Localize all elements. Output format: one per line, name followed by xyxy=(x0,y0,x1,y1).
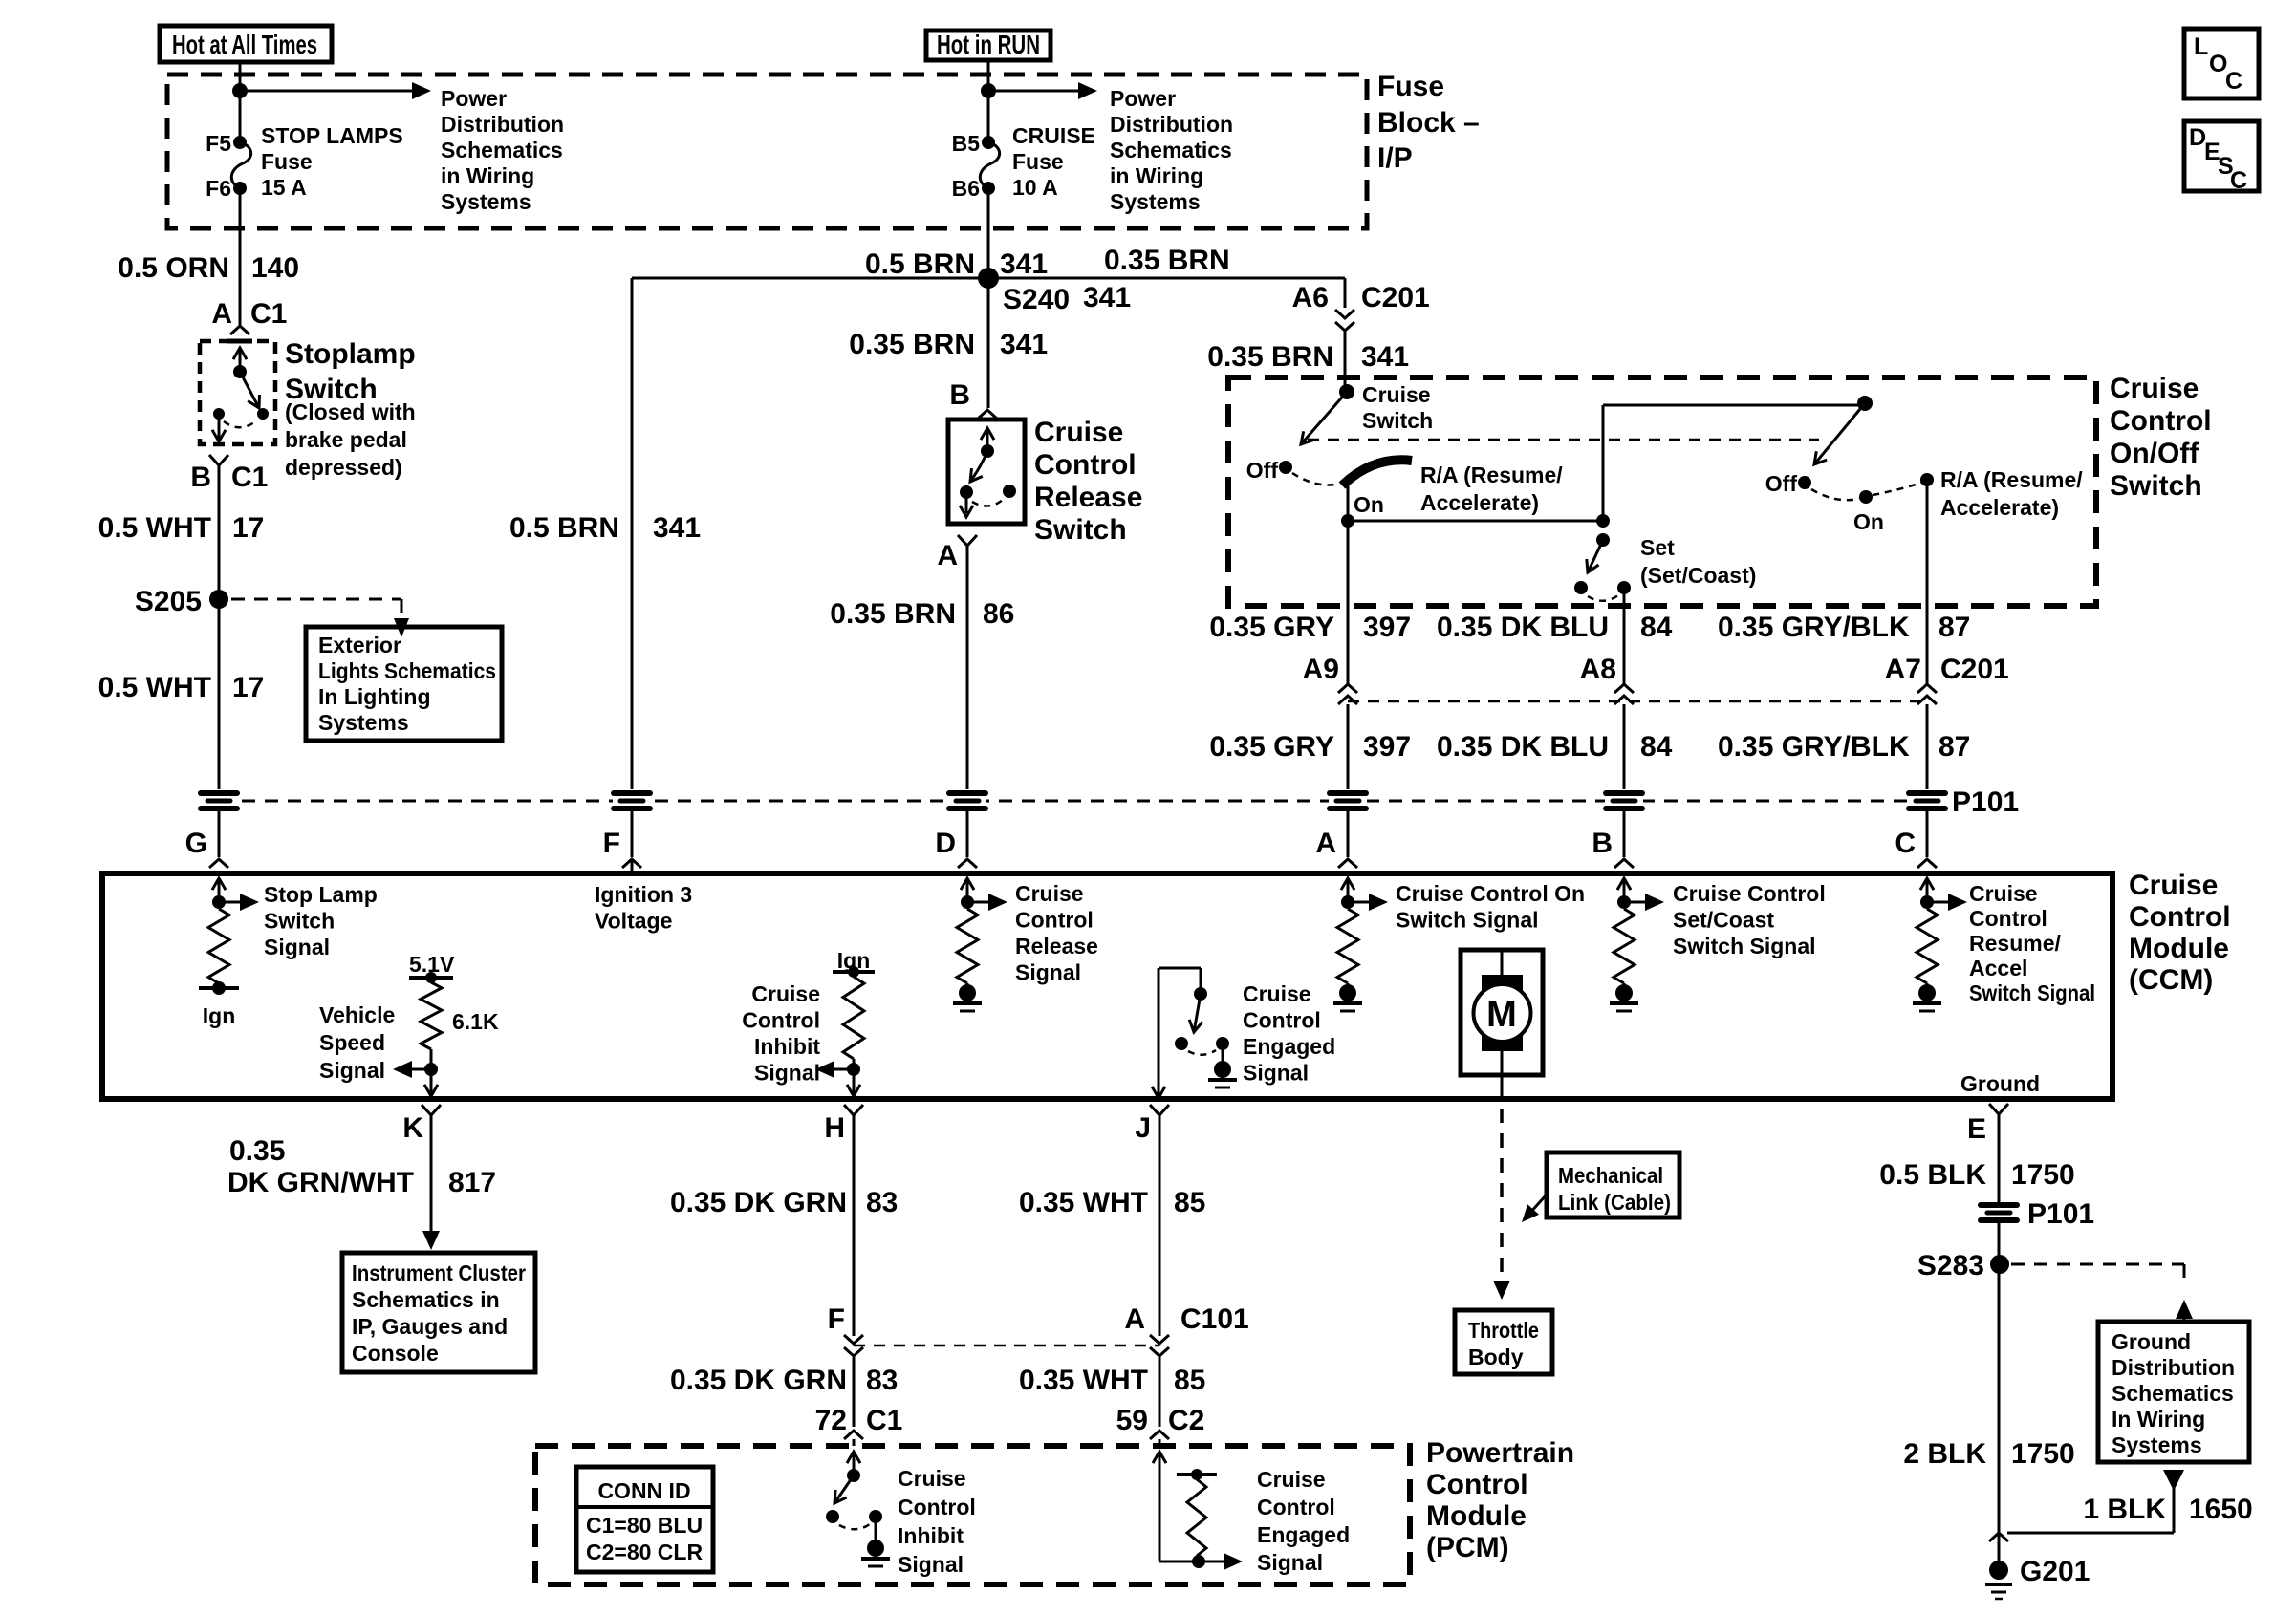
svg-text:CRUISE: CRUISE xyxy=(1012,123,1095,148)
svg-text:C1: C1 xyxy=(866,1405,902,1436)
svg-text:Distribution: Distribution xyxy=(441,112,564,137)
svg-text:DK GRN/WHT: DK GRN/WHT xyxy=(227,1167,414,1198)
svg-text:Cruise: Cruise xyxy=(2129,870,2218,901)
svg-text:Switch Signal: Switch Signal xyxy=(1396,908,1539,933)
svg-text:Stoplamp: Stoplamp xyxy=(285,338,416,370)
svg-text:Control: Control xyxy=(742,1008,820,1033)
svg-text:A7: A7 xyxy=(1885,654,1921,685)
svg-text:F5: F5 xyxy=(206,131,231,156)
svg-text:Cruise: Cruise xyxy=(1034,417,1123,448)
svg-text:C1: C1 xyxy=(250,298,287,330)
svg-text:341: 341 xyxy=(1361,341,1409,373)
svg-text:A: A xyxy=(1315,828,1336,859)
svg-text:A9: A9 xyxy=(1303,654,1339,685)
svg-text:Exterior: Exterior xyxy=(318,633,401,657)
svg-text:R/A (Resume/: R/A (Resume/ xyxy=(1940,467,2083,492)
svg-text:87: 87 xyxy=(1939,731,1970,763)
svg-text:C2=80 CLR: C2=80 CLR xyxy=(586,1540,703,1564)
svg-text:87: 87 xyxy=(1939,612,1970,643)
svg-text:397: 397 xyxy=(1363,612,1411,643)
svg-text:Schematics: Schematics xyxy=(2112,1381,2234,1406)
svg-text:In Lighting: In Lighting xyxy=(318,684,431,709)
svg-text:6.1K: 6.1K xyxy=(452,1009,499,1034)
svg-text:R/A (Resume/: R/A (Resume/ xyxy=(1420,463,1563,487)
svg-text:A6: A6 xyxy=(1292,282,1329,313)
svg-text:Hot at All Times: Hot at All Times xyxy=(172,30,317,59)
svg-text:341: 341 xyxy=(1083,282,1131,313)
svg-text:Off: Off xyxy=(1246,458,1279,483)
svg-text:397: 397 xyxy=(1363,731,1411,763)
svg-text:Accelerate): Accelerate) xyxy=(1420,490,1539,515)
svg-text:Inhibit: Inhibit xyxy=(898,1523,964,1548)
svg-text:0.35: 0.35 xyxy=(229,1135,285,1167)
svg-text:Module: Module xyxy=(2129,933,2229,964)
svg-text:depressed): depressed) xyxy=(285,455,402,480)
svg-text:Control: Control xyxy=(2110,405,2212,437)
svg-text:1 BLK: 1 BLK xyxy=(2083,1494,2166,1525)
svg-text:(CCM): (CCM) xyxy=(2129,964,2213,996)
svg-text:0.5 BRN: 0.5 BRN xyxy=(509,512,619,544)
svg-text:Accelerate): Accelerate) xyxy=(1940,495,2059,520)
svg-text:Systems: Systems xyxy=(2112,1432,2202,1457)
svg-text:Engaged: Engaged xyxy=(1257,1522,1350,1547)
svg-text:Systems: Systems xyxy=(1110,189,1201,214)
svg-text:(Set/Coast): (Set/Coast) xyxy=(1640,563,1756,588)
svg-text:85: 85 xyxy=(1174,1365,1205,1396)
svg-text:Throttle: Throttle xyxy=(1468,1318,1539,1343)
svg-text:0.35 BRN: 0.35 BRN xyxy=(849,329,975,360)
svg-text:Block –: Block – xyxy=(1377,107,1480,139)
svg-text:A: A xyxy=(937,540,958,571)
svg-text:0.35 WHT: 0.35 WHT xyxy=(1019,1365,1148,1396)
svg-text:IP, Gauges and: IP, Gauges and xyxy=(352,1314,508,1339)
svg-text:I/P: I/P xyxy=(1377,142,1413,174)
svg-text:B: B xyxy=(190,462,211,493)
svg-text:Control: Control xyxy=(1257,1495,1335,1519)
svg-text:H: H xyxy=(824,1112,845,1144)
svg-text:F: F xyxy=(603,828,620,859)
svg-text:1750: 1750 xyxy=(2011,1159,2075,1191)
svg-text:84: 84 xyxy=(1640,612,1673,643)
svg-text:Schematics: Schematics xyxy=(1110,138,1232,162)
svg-text:0.35 BRN: 0.35 BRN xyxy=(830,598,956,630)
svg-text:Distribution: Distribution xyxy=(1110,112,1233,137)
svg-text:0.35 DK GRN: 0.35 DK GRN xyxy=(670,1187,847,1218)
svg-text:C2: C2 xyxy=(1168,1405,1204,1436)
svg-text:Cruise: Cruise xyxy=(898,1466,966,1491)
svg-text:83: 83 xyxy=(866,1187,898,1218)
svg-text:brake pedal: brake pedal xyxy=(285,427,407,452)
svg-text:17: 17 xyxy=(232,512,264,544)
svg-text:Fuse: Fuse xyxy=(1012,149,1064,174)
svg-text:Speed: Speed xyxy=(319,1030,385,1055)
svg-text:B6: B6 xyxy=(952,176,980,201)
svg-text:83: 83 xyxy=(866,1365,898,1396)
svg-text:Fuse: Fuse xyxy=(1377,71,1444,102)
svg-text:C201: C201 xyxy=(1361,282,1430,313)
svg-text:A8: A8 xyxy=(1580,654,1616,685)
svg-text:Console: Console xyxy=(352,1341,439,1366)
svg-text:0.35 GRY: 0.35 GRY xyxy=(1209,731,1334,763)
svg-text:72: 72 xyxy=(815,1405,847,1436)
svg-text:Control: Control xyxy=(1243,1008,1321,1033)
svg-text:Voltage: Voltage xyxy=(595,909,672,934)
svg-text:Instrument Cluster: Instrument Cluster xyxy=(352,1260,526,1285)
svg-text:D: D xyxy=(935,828,956,859)
svg-text:Ign: Ign xyxy=(203,1003,236,1028)
svg-text:B: B xyxy=(949,379,970,411)
svg-text:Off: Off xyxy=(1765,471,1798,496)
svg-text:in Wiring: in Wiring xyxy=(441,163,534,188)
svg-text:Set/Coast: Set/Coast xyxy=(1673,908,1774,933)
svg-text:Link (Cable): Link (Cable) xyxy=(1558,1190,1671,1215)
svg-text:B: B xyxy=(1592,828,1613,859)
svg-text:0.5 BRN: 0.5 BRN xyxy=(865,248,975,280)
svg-text:On/Off: On/Off xyxy=(2110,438,2199,469)
svg-text:0.35 DK BLU: 0.35 DK BLU xyxy=(1437,731,1609,763)
svg-text:Resume/: Resume/ xyxy=(1969,931,2061,956)
svg-text:Set: Set xyxy=(1640,535,1675,560)
svg-text:15 A: 15 A xyxy=(261,175,307,200)
svg-text:Schematics in: Schematics in xyxy=(352,1287,500,1312)
svg-text:P101: P101 xyxy=(2027,1198,2094,1230)
svg-text:817: 817 xyxy=(448,1167,496,1198)
svg-text:S283: S283 xyxy=(1917,1250,1984,1281)
svg-text:86: 86 xyxy=(983,598,1014,630)
svg-text:17: 17 xyxy=(232,672,264,703)
svg-text:C: C xyxy=(2230,167,2247,194)
svg-text:Switch Signal: Switch Signal xyxy=(1969,980,2095,1005)
svg-text:Module: Module xyxy=(1426,1500,1527,1532)
svg-text:S240: S240 xyxy=(1003,284,1070,315)
svg-text:C: C xyxy=(1895,828,1916,859)
svg-text:J: J xyxy=(1135,1112,1151,1144)
svg-text:Cruise: Cruise xyxy=(1015,881,1084,906)
svg-text:1750: 1750 xyxy=(2011,1438,2075,1470)
svg-text:Cruise: Cruise xyxy=(751,981,820,1006)
svg-text:Cruise Control On: Cruise Control On xyxy=(1396,881,1585,906)
svg-text:C: C xyxy=(2225,68,2242,95)
svg-text:C1=80 BLU: C1=80 BLU xyxy=(586,1513,703,1538)
svg-text:0.35 WHT: 0.35 WHT xyxy=(1019,1187,1148,1218)
svg-text:Signal: Signal xyxy=(898,1552,964,1577)
svg-text:Control: Control xyxy=(898,1495,976,1519)
svg-text:C101: C101 xyxy=(1180,1303,1249,1335)
svg-text:Cruise: Cruise xyxy=(2110,373,2199,404)
svg-text:(Closed with: (Closed with xyxy=(285,399,416,424)
svg-text:S205: S205 xyxy=(135,586,202,617)
svg-text:Lights Schematics: Lights Schematics xyxy=(318,658,496,683)
svg-text:Signal: Signal xyxy=(1243,1061,1309,1086)
svg-text:85: 85 xyxy=(1174,1187,1205,1218)
svg-text:On: On xyxy=(1354,492,1384,517)
svg-text:Cruise: Cruise xyxy=(1362,382,1431,407)
svg-text:341: 341 xyxy=(653,512,701,544)
svg-text:Cruise: Cruise xyxy=(1243,981,1311,1006)
svg-text:(PCM): (PCM) xyxy=(1426,1532,1509,1563)
svg-text:341: 341 xyxy=(1000,248,1048,280)
svg-text:59: 59 xyxy=(1116,1405,1148,1436)
svg-text:140: 140 xyxy=(251,252,299,284)
svg-text:B5: B5 xyxy=(952,131,981,156)
svg-text:G201: G201 xyxy=(2020,1556,2090,1587)
svg-text:Cruise: Cruise xyxy=(1257,1467,1326,1492)
svg-text:2 BLK: 2 BLK xyxy=(1903,1438,1986,1470)
svg-text:G: G xyxy=(185,828,207,859)
svg-text:0.5 WHT: 0.5 WHT xyxy=(98,672,211,703)
svg-text:A: A xyxy=(211,298,232,330)
svg-text:Inhibit: Inhibit xyxy=(754,1034,820,1059)
svg-text:Signal: Signal xyxy=(1257,1550,1323,1575)
svg-text:Distribution: Distribution xyxy=(2112,1355,2235,1380)
svg-text:Ground: Ground xyxy=(1960,1071,2040,1096)
svg-text:0.35 BRN: 0.35 BRN xyxy=(1207,341,1333,373)
svg-text:Ground: Ground xyxy=(2112,1329,2191,1354)
svg-text:Ignition 3: Ignition 3 xyxy=(595,882,692,907)
svg-text:Release: Release xyxy=(1034,482,1142,513)
svg-text:0.5 BLK: 0.5 BLK xyxy=(1879,1159,1986,1191)
svg-text:Signal: Signal xyxy=(319,1058,385,1083)
svg-text:10 A: 10 A xyxy=(1012,175,1058,200)
svg-text:Control: Control xyxy=(1015,908,1094,933)
svg-text:STOP LAMPS: STOP LAMPS xyxy=(261,123,403,148)
svg-text:Control: Control xyxy=(1969,906,2047,931)
svg-text:1650: 1650 xyxy=(2189,1494,2253,1525)
svg-text:P101: P101 xyxy=(1952,786,2019,818)
svg-text:Signal: Signal xyxy=(1015,960,1081,985)
svg-text:Body: Body xyxy=(1468,1345,1524,1369)
svg-text:in Wiring: in Wiring xyxy=(1110,163,1203,188)
svg-text:F6: F6 xyxy=(206,176,231,201)
svg-text:0.35 GRY/BLK: 0.35 GRY/BLK xyxy=(1718,612,1910,643)
svg-text:Vehicle: Vehicle xyxy=(319,1002,395,1027)
svg-text:Stop Lamp: Stop Lamp xyxy=(264,882,378,907)
svg-text:Hot in RUN: Hot in RUN xyxy=(937,30,1040,59)
svg-text:Power: Power xyxy=(441,86,507,111)
svg-text:E: E xyxy=(1967,1113,1986,1145)
svg-text:Control: Control xyxy=(1034,449,1137,481)
svg-text:Mechanical: Mechanical xyxy=(1558,1163,1663,1188)
svg-text:341: 341 xyxy=(1000,329,1048,360)
svg-text:Signal: Signal xyxy=(264,935,330,959)
svg-text:Cruise Control: Cruise Control xyxy=(1673,881,1826,906)
svg-text:Switch: Switch xyxy=(1034,514,1127,546)
svg-text:K: K xyxy=(402,1112,423,1144)
svg-text:Accel: Accel xyxy=(1969,956,2027,980)
svg-text:Release: Release xyxy=(1015,934,1098,958)
svg-text:0.35 GRY/BLK: 0.35 GRY/BLK xyxy=(1718,731,1910,763)
svg-text:0.5 ORN: 0.5 ORN xyxy=(118,252,229,284)
svg-text:Fuse: Fuse xyxy=(261,149,313,174)
svg-text:Control: Control xyxy=(1426,1469,1528,1500)
svg-text:C201: C201 xyxy=(1940,654,2009,685)
svg-text:Engaged: Engaged xyxy=(1243,1034,1335,1059)
svg-text:0.35 DK BLU: 0.35 DK BLU xyxy=(1437,612,1609,643)
svg-text:0.35 DK GRN: 0.35 DK GRN xyxy=(670,1365,847,1396)
svg-text:0.5 WHT: 0.5 WHT xyxy=(98,512,211,544)
svg-text:Switch: Switch xyxy=(2110,470,2202,502)
svg-text:Switch: Switch xyxy=(264,909,335,934)
svg-text:Cruise: Cruise xyxy=(1969,881,2038,906)
svg-text:Powertrain: Powertrain xyxy=(1426,1437,1574,1469)
svg-text:0.35 GRY: 0.35 GRY xyxy=(1209,612,1334,643)
svg-text:In Wiring: In Wiring xyxy=(2112,1407,2205,1432)
svg-text:Switch Signal: Switch Signal xyxy=(1673,934,1816,958)
svg-text:Signal: Signal xyxy=(754,1061,820,1086)
svg-text:C1: C1 xyxy=(231,462,268,493)
svg-text:Schematics: Schematics xyxy=(441,138,563,162)
svg-text:A: A xyxy=(1124,1303,1145,1335)
svg-text:On: On xyxy=(1853,509,1884,534)
svg-text:F: F xyxy=(828,1303,845,1335)
svg-text:0.35 BRN: 0.35 BRN xyxy=(1104,245,1230,276)
svg-text:Switch: Switch xyxy=(1362,408,1433,433)
svg-text:L: L xyxy=(2194,33,2208,60)
svg-text:Control: Control xyxy=(2129,901,2231,933)
svg-text:Systems: Systems xyxy=(318,710,409,735)
svg-text:M: M xyxy=(1486,995,1517,1035)
svg-text:CONN ID: CONN ID xyxy=(597,1478,690,1503)
svg-text:Power: Power xyxy=(1110,86,1176,111)
svg-text:Systems: Systems xyxy=(441,189,531,214)
svg-text:84: 84 xyxy=(1640,731,1673,763)
